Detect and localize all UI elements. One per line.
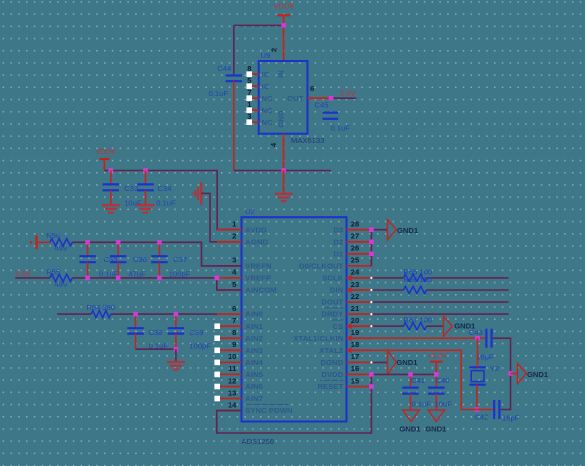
capacitor C36 — [110, 242, 147, 278]
U2 pin 11 no-connect — [214, 372, 220, 378]
svg-text:GND1: GND1 — [527, 370, 549, 379]
U2 pin 18 (XTAL2) stub — [319, 340, 371, 355]
crystal Y2 — [469, 364, 499, 385]
svg-text:+3.3V: +3.3V — [427, 351, 448, 360]
wire rail to ground — [283, 171, 285, 194]
wire R54 to AIN0 — [111, 313, 217, 315]
svg-text:C34: C34 — [158, 184, 172, 193]
svg-text:24: 24 — [351, 268, 360, 277]
junction C38 top — [133, 312, 138, 317]
svg-text:IN: IN — [277, 70, 286, 78]
wire to GND1 right — [511, 373, 518, 375]
junctions C37 — [157, 240, 162, 245]
svg-text:IC: IC — [262, 82, 270, 91]
svg-text:22: 22 — [351, 292, 359, 301]
svg-text:0.1uF: 0.1uF — [331, 124, 351, 133]
wire SCLK to R65 — [371, 277, 403, 279]
junction VDD5/U9 — [281, 23, 286, 28]
power VDD5 (top) — [273, 2, 293, 26]
svg-text:15: 15 — [351, 376, 360, 385]
U2 pin 12 no-connect — [214, 384, 220, 390]
U2 pin 7 no-connect — [214, 323, 220, 329]
svg-text:6: 6 — [310, 84, 314, 93]
capacitor C43 — [469, 328, 494, 361]
svg-text:C44: C44 — [217, 64, 231, 73]
svg-text:AIN0: AIN0 — [245, 310, 263, 319]
U2 pin 11 (AIN5) stub — [217, 364, 264, 379]
svg-text:AIN5: AIN5 — [245, 370, 263, 379]
wire VDD5 to U9 IN — [283, 25, 285, 61]
wire XTAL1 line — [371, 337, 485, 339]
junction C40 — [434, 372, 439, 377]
wire to ground — [175, 349, 177, 361]
svg-text:AIN6: AIN6 — [245, 382, 263, 391]
junction C34 — [143, 168, 148, 173]
U2 pin 13 (AIN7) stub — [217, 388, 263, 403]
U2 pin 12 (AIN6) stub — [217, 376, 263, 391]
capacitor C37 — [151, 242, 190, 278]
ground GND1 (C40) — [428, 410, 445, 422]
U2 pin 25 (D0/CLKOUT) stub — [299, 256, 371, 271]
svg-text:9: 9 — [232, 340, 236, 349]
capacitor C38 — [127, 314, 168, 351]
svg-text:XTAL1/CLKIN: XTAL1/CLKIN — [293, 334, 343, 343]
wire 2.5V net — [331, 97, 356, 99]
svg-text:GND: GND — [277, 110, 286, 128]
U2 pin 8 (AIN2) stub — [217, 328, 263, 343]
svg-text:8: 8 — [247, 64, 251, 73]
power +3.3V — [427, 351, 448, 375]
U9 pin 3 (NC) — [246, 112, 273, 127]
wire DVDD rail — [371, 373, 436, 375]
svg-text:R66 100: R66 100 — [403, 275, 432, 284]
svg-text:VDD5: VDD5 — [273, 2, 293, 11]
svg-text:AGND: AGND — [245, 237, 268, 246]
svg-text:C38: C38 — [149, 328, 163, 337]
U2 pin 13 no-connect — [214, 396, 220, 402]
U2 pin 14 (SYNC PDWN) stub — [217, 400, 293, 415]
U2 pin 9 (AIN3) stub — [217, 340, 263, 355]
svg-text:7: 7 — [247, 88, 251, 97]
svg-text:AIN7: AIN7 — [245, 394, 263, 403]
wire AIN0 line — [57, 313, 91, 315]
svg-text:AIN2: AIN2 — [245, 334, 263, 343]
svg-text:C39: C39 — [189, 328, 203, 337]
U2 pin 10 (AIN4) stub — [217, 352, 264, 367]
svg-text:8: 8 — [232, 328, 236, 337]
U2 pin 9 no-connect — [214, 348, 220, 354]
svg-text:100pF: 100pF — [189, 342, 211, 351]
junctions C35 — [85, 240, 90, 245]
resistor R65 — [403, 268, 432, 282]
svg-text:AIN4: AIN4 — [245, 358, 263, 367]
svg-text:DIN: DIN — [330, 286, 343, 295]
svg-text:U2: U2 — [245, 207, 255, 216]
svg-text:23: 23 — [351, 280, 359, 289]
svg-text:MAX6133: MAX6133 — [291, 136, 324, 145]
svg-text:3: 3 — [232, 256, 236, 265]
svg-text:NC: NC — [262, 106, 274, 115]
svg-text:R67 100: R67 100 — [403, 316, 432, 325]
U2 pin 19 (XTAL1/CLKIN) stub — [293, 328, 371, 343]
svg-text:2.5V: 2.5V — [15, 269, 32, 278]
svg-text:499: 499 — [54, 244, 67, 253]
svg-text:10uF: 10uF — [435, 400, 453, 409]
svg-text:499: 499 — [54, 279, 67, 288]
junction C39 bottom — [174, 347, 179, 352]
svg-text:GND1: GND1 — [396, 358, 418, 367]
wire C44 bottom to gnd rail — [233, 81, 235, 170]
U2 pin 22 (DOUT) stub — [321, 292, 371, 307]
svg-text:C41: C41 — [411, 376, 425, 385]
U2 pin 5 (AINCOM) stub — [217, 280, 277, 295]
wire VREFP to AINCOM — [217, 278, 242, 290]
svg-text:SYNC PDWN: SYNC PDWN — [245, 406, 292, 415]
ground (C38/C39) — [167, 362, 185, 369]
overline SYNC PDWN — [245, 403, 288, 405]
overline DRDY — [324, 307, 343, 309]
junction OUT/C45 — [329, 96, 334, 101]
resistor R66 — [403, 275, 432, 294]
svg-text:AIN3: AIN3 — [245, 346, 263, 355]
U2 pin 28 (D3) stub — [333, 220, 371, 235]
svg-text:18: 18 — [351, 340, 359, 349]
svg-text:C40: C40 — [436, 376, 450, 385]
svg-text:AVDD: AVDD — [245, 225, 267, 234]
resistor R55 — [46, 267, 72, 288]
svg-text:18pF: 18pF — [502, 413, 520, 422]
svg-text:GND1: GND1 — [397, 226, 419, 235]
svg-text:C37: C37 — [173, 255, 187, 264]
ground GND1 (CS) — [444, 316, 453, 336]
svg-text:SCLK: SCLK — [322, 274, 343, 283]
svg-text:21: 21 — [351, 304, 360, 313]
U9 pin 5 (IC) — [246, 76, 269, 91]
svg-text:OUT: OUT — [287, 94, 304, 103]
ground (C34) — [137, 205, 155, 212]
wire Y2 bottom to XTAL2 line — [476, 385, 478, 410]
svg-text:C43: C43 — [469, 328, 483, 337]
svg-text:IC: IC — [262, 70, 270, 79]
junctions C36 — [116, 240, 121, 245]
svg-text:0.1uF: 0.1uF — [99, 269, 119, 278]
U2 pin 4 (VREFP) stub — [217, 268, 271, 283]
wire XTAL2 line — [371, 350, 493, 409]
capacitor C33 — [103, 171, 142, 208]
svg-text:14: 14 — [228, 400, 237, 409]
capacitor C34 — [137, 171, 176, 208]
svg-text:VDD5: VDD5 — [95, 147, 115, 156]
U9 pin 4 stub down — [283, 134, 285, 171]
wire R55 to VREFP — [72, 277, 217, 279]
wire DOUT — [371, 301, 508, 303]
svg-text:GND1: GND1 — [425, 424, 447, 433]
junction C39 top — [174, 312, 179, 317]
wire 2.5V to R55 — [15, 277, 50, 279]
U2 pin 21 (DRDY) stub — [321, 304, 371, 319]
wire R67 to GND1 — [427, 325, 444, 327]
svg-text:AIN1: AIN1 — [245, 322, 263, 331]
svg-text:7: 7 — [232, 316, 236, 325]
svg-text:Y2: Y2 — [490, 364, 499, 373]
svg-text:NC: NC — [262, 94, 274, 103]
U2 pin 10 no-connect — [214, 360, 220, 366]
svg-text:25: 25 — [351, 256, 360, 265]
wire C38 to C39 bottom — [136, 348, 176, 350]
U2 pin 15 (RESET) stub — [317, 376, 371, 391]
svg-text:D2: D2 — [333, 237, 343, 246]
junctions DVDD,RESET — [369, 372, 374, 377]
svg-text:17: 17 — [351, 352, 359, 361]
wire RESET tie to DVDD and SYNC — [217, 374, 372, 433]
wire D2/D1/D0 bus tie — [370, 230, 372, 266]
U2 pin 16 (DVDD) stub — [321, 364, 371, 379]
U2 pin 3 (VREFN) stub — [217, 256, 272, 271]
ground GND1 (crystal) — [518, 364, 527, 384]
wire CS to R67 — [371, 325, 403, 327]
capacitor C45 — [315, 101, 351, 133]
svg-text:ADS1256: ADS1256 — [242, 437, 275, 446]
svg-text:XTAL2: XTAL2 — [319, 346, 343, 355]
junction C41 — [408, 372, 413, 377]
svg-text:C42: C42 — [474, 413, 488, 422]
U2 pin 27 (D2) stub — [333, 232, 371, 247]
wire R65 out — [427, 277, 509, 279]
svg-text:2: 2 — [232, 232, 236, 241]
svg-text:D1: D1 — [333, 249, 344, 258]
wire VDD5 rail to U2 AVDD — [104, 171, 241, 230]
svg-text:VREFN: VREFN — [245, 262, 271, 271]
capacitor C44 — [209, 64, 242, 98]
ground GND1 (DGND) — [388, 350, 397, 374]
overline RESET — [320, 379, 343, 381]
capacitor C41 — [402, 374, 431, 409]
svg-text:C45: C45 — [315, 101, 329, 110]
svg-text:AINCOM: AINCOM — [245, 286, 276, 295]
svg-text:RESET: RESET — [317, 382, 343, 391]
wire D3 to GND1 — [371, 229, 387, 231]
junction VREFP — [215, 276, 220, 281]
svg-text:DVDD: DVDD — [321, 370, 343, 379]
junction pin4/rail — [281, 168, 286, 173]
svg-text:0.1uF: 0.1uF — [412, 400, 432, 409]
svg-text:19: 19 — [351, 328, 359, 337]
wire DRDY — [371, 313, 508, 315]
ground (U9) — [275, 194, 293, 201]
svg-text:6: 6 — [232, 304, 236, 313]
ground AGND symbol (sideways) — [193, 182, 202, 205]
junction C33 — [109, 168, 114, 173]
U2 pin 7 (AIN1) stub — [217, 316, 264, 331]
svg-text:28: 28 — [351, 220, 359, 229]
U2 pin 24 (SCLK) stub — [322, 268, 371, 283]
junction XTAL1/Y2 — [475, 336, 480, 341]
svg-text:11: 11 — [228, 364, 237, 373]
svg-text:27: 27 — [351, 232, 359, 241]
ground (C33) — [102, 205, 120, 212]
junction GND1 mid — [508, 371, 513, 376]
U2 pin 6 (AIN0) stub — [217, 304, 263, 319]
svg-text:DOUT: DOUT — [321, 298, 343, 307]
power VDD5 (left) — [95, 147, 115, 170]
junctions D3,D2,D1 — [369, 227, 374, 232]
svg-text:47uF: 47uF — [128, 269, 146, 278]
svg-text:D0/CLKOUT: D0/CLKOUT — [299, 262, 344, 271]
U9 pin 8 (IC) — [246, 64, 269, 79]
svg-text:3: 3 — [247, 112, 251, 121]
capacitor C40 — [428, 374, 452, 409]
U2 pin 17 (DGND) stub — [321, 352, 372, 367]
svg-text:VREFP: VREFP — [245, 274, 271, 283]
U2 pin 2 (AGND) stub — [217, 232, 268, 247]
junction Y2/C42 — [475, 407, 480, 412]
wire DIN to R66 — [371, 289, 403, 291]
svg-text:26: 26 — [351, 244, 359, 253]
svg-text:DRDY: DRDY — [321, 310, 343, 319]
wire AGND to U2 pin 2 — [201, 193, 241, 241]
U2 pin 1 (AVDD) stub — [217, 220, 267, 235]
svg-text:R55: R55 — [46, 267, 60, 276]
svg-text:NC: NC — [262, 118, 274, 127]
svg-text:R54 390: R54 390 — [86, 303, 115, 312]
wire Y2 top to XTAL1 — [477, 338, 479, 367]
ground GND1 (D3) — [388, 220, 397, 240]
capacitor C42 — [474, 400, 519, 422]
svg-text:13: 13 — [228, 388, 236, 397]
svg-text:CS: CS — [333, 322, 344, 331]
svg-text:GND1: GND1 — [399, 424, 421, 433]
svg-text:D3: D3 — [333, 225, 343, 234]
resistor R54 — [86, 303, 115, 318]
svg-text:C36: C36 — [133, 255, 147, 264]
U2 pin 20 (CS) stub — [333, 316, 372, 331]
regulator U9 box — [259, 61, 308, 134]
U9 pin 6 stub to 2.5V — [308, 97, 332, 99]
svg-text:16: 16 — [351, 364, 359, 373]
wire R56 to VREFN rail — [72, 242, 241, 266]
svg-text:R56: R56 — [46, 231, 60, 240]
svg-text:2: 2 — [270, 48, 279, 52]
wire R66 out — [427, 289, 509, 291]
overline CS — [331, 319, 343, 321]
wire VDD5 to C44 top — [234, 25, 284, 75]
port terminal (R56 left) — [30, 235, 37, 249]
U2 pin 23 (DIN) stub — [330, 280, 371, 295]
wire to R56 — [37, 241, 50, 243]
svg-text:0.1uF: 0.1uF — [156, 199, 176, 208]
resistor R56 — [46, 231, 72, 253]
wire C43 to GND vertical — [493, 338, 511, 409]
svg-text:100pF: 100pF — [169, 269, 191, 278]
svg-text:12: 12 — [228, 376, 236, 385]
svg-text:10: 10 — [228, 352, 236, 361]
U2 pin 26 (D1) stub — [333, 244, 371, 259]
wire U9 ground rail — [234, 170, 331, 172]
U9 pin 1 (NC) — [246, 100, 273, 115]
svg-text:C33: C33 — [124, 184, 138, 193]
svg-text:20: 20 — [351, 316, 359, 325]
svg-text:DGND: DGND — [321, 358, 344, 367]
U2 pin 8 no-connect — [214, 335, 220, 341]
wire DGND to GND1 — [371, 361, 387, 363]
white stub end dots — [370, 277, 372, 279]
capacitor C39 — [168, 314, 212, 351]
svg-text:18pF: 18pF — [476, 353, 494, 362]
IC U2 box — [242, 217, 347, 421]
input arrows on pins 24,23,20,19,18 — [347, 275, 352, 281]
resistor R67 — [403, 316, 432, 330]
U9 pin 7 (NC) — [246, 88, 273, 103]
ground GND1 (C41) — [403, 410, 420, 422]
svg-text:2.5V: 2.5V — [340, 88, 357, 97]
capacitor C35 — [79, 242, 118, 278]
svg-text:0.1uF: 0.1uF — [209, 89, 229, 98]
